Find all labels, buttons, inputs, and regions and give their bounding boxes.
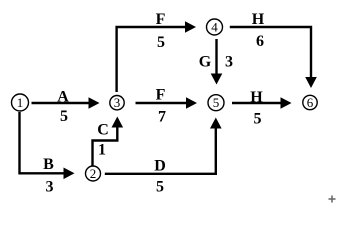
node 2 [86, 166, 101, 181]
wire activity B (1→2) [20, 112, 75, 179]
node 6 [303, 95, 317, 110]
svg-text:5: 5 [213, 95, 220, 110]
svg-text:F: F [156, 87, 166, 104]
svg-text:C: C [97, 122, 109, 139]
svg-text:6: 6 [307, 95, 314, 110]
wire activity H (5→6) [232, 97, 292, 109]
svg-text:5: 5 [156, 179, 164, 196]
wire activity A (1→3) [32, 97, 100, 109]
svg-text:F: F [156, 11, 166, 28]
svg-text:3: 3 [225, 54, 233, 71]
svg-text:H: H [252, 11, 265, 28]
svg-text:5: 5 [157, 34, 165, 51]
wire activity F (3→5) [136, 97, 198, 109]
svg-text:7: 7 [158, 109, 166, 126]
node 5 [208, 95, 224, 111]
node 3 [110, 95, 124, 110]
svg-text:G: G [199, 54, 212, 71]
svg-text:H: H [250, 89, 263, 106]
cursor mark (gray plus, bottom right) [329, 196, 336, 203]
svg-text:3: 3 [114, 95, 121, 110]
svg-text:2: 2 [90, 166, 97, 181]
wire activity C (2→3) [93, 117, 124, 167]
svg-text:A: A [57, 89, 69, 106]
node 1 [12, 94, 29, 111]
svg-text:3: 3 [46, 179, 54, 196]
svg-text:4: 4 [211, 20, 218, 35]
svg-text:6: 6 [256, 33, 264, 50]
svg-text:B: B [43, 156, 54, 173]
svg-text:D: D [154, 158, 166, 175]
node 4 [207, 19, 223, 35]
wire activity H (4→6) [230, 27, 317, 88]
wire activity G (4→5) [211, 39, 223, 85]
wire activity D (2→5) [105, 118, 222, 174]
svg-text:1: 1 [98, 142, 106, 159]
svg-text:1: 1 [17, 95, 24, 110]
wire activity F (3→4) [117, 21, 196, 92]
svg-text:5: 5 [60, 108, 68, 125]
svg-text:5: 5 [254, 111, 262, 128]
